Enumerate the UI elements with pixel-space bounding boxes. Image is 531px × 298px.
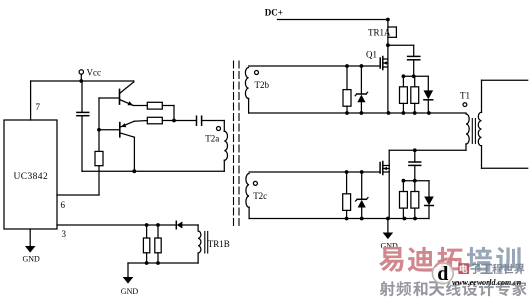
wire to coupling cap	[174, 120, 196, 122]
resistor R9 (Q2 gate)	[346, 172, 348, 194]
resistor R10 (burden)	[146, 225, 148, 238]
svg-text:TR1A: TR1A	[368, 28, 391, 38]
svg-text:T2a: T2a	[205, 134, 219, 144]
winding TR1A current transformer primary	[387, 20, 389, 46]
wire pin7 vertical	[30, 81, 32, 120]
svg-text:TR1B: TR1B	[208, 239, 230, 249]
resistor R8 (snubber 2)	[414, 181, 416, 192]
svg-text:www.eeworld.com.cn: www.eeworld.com.cn	[452, 278, 522, 287]
capacitor C3 (snubber 1)	[413, 45, 415, 56]
ground GND1 under UC3842	[29, 229, 31, 246]
svg-text:6: 6	[61, 200, 66, 210]
watermark brand line: yi di tuo (rose) + pei xun (blue)	[379, 247, 404, 272]
winding TR1B current transformer secondary	[197, 225, 199, 231]
winding T2a primary	[223, 121, 225, 132]
wire junction row 2	[403, 180, 429, 182]
winding T1 secondary	[481, 80, 483, 112]
node collector junction	[132, 169, 136, 173]
wire top rail Vcc	[31, 80, 134, 82]
svg-text:GND: GND	[121, 287, 139, 296]
node emitter junction	[172, 119, 176, 123]
svg-text:Vcc: Vcc	[87, 68, 102, 78]
svg-text:DC+: DC+	[265, 8, 283, 18]
winding T2c secondary	[246, 174, 249, 208]
wire DC+ rail	[278, 19, 388, 21]
node Vcc terminal	[79, 70, 83, 74]
wire source rail 2	[249, 218, 429, 220]
transistor Q2 MOSFET	[383, 165, 389, 167]
svg-text:d: d	[437, 263, 448, 285]
transistor Q_pnp (bottom)	[97, 128, 101, 132]
resistor R1 (top emitter)	[147, 102, 162, 109]
svg-text:T2b: T2b	[255, 80, 270, 90]
svg-text:7: 7	[36, 102, 41, 112]
svg-text:Q1: Q1	[366, 50, 377, 60]
zener Z2 (Q2 gate clamp)	[361, 172, 363, 199]
capacitor C2 (coupling)	[196, 116, 198, 125]
wire burden bottom rail	[128, 262, 198, 264]
svg-text:T2c: T2c	[253, 191, 267, 201]
wire drain link to snubber cap	[388, 44, 414, 46]
watermark eeworld logo: red dian box	[458, 263, 469, 274]
core dashed lines T2	[233, 61, 235, 226]
watermark eeworld gray text	[470, 264, 481, 274]
diode D3 (rectifier, cathode left)	[175, 221, 177, 228]
resistor R11 (burden)	[157, 225, 159, 238]
ground GND2 (sense)	[127, 263, 129, 277]
svg-text:UC3842: UC3842	[14, 172, 49, 182]
capacitor C1 (Vcc bypass)	[81, 81, 83, 112]
op-amp U1 UC3842 controller box	[4, 120, 57, 229]
node burden junctions	[145, 223, 149, 227]
wire drain line 2	[389, 149, 466, 151]
winding T1 primary	[466, 114, 469, 144]
resistor R2 (bottom emitter)	[147, 117, 162, 124]
wire source rail 1	[249, 112, 466, 114]
svg-text:GND: GND	[23, 255, 41, 264]
wire base bus vertical	[98, 98, 100, 151]
resistor R5 (snubber 1)	[402, 76, 404, 87]
transistor Q_npn (top)	[99, 97, 120, 99]
svg-text:T1: T1	[460, 91, 470, 101]
zener Z1 (Q1 gate clamp)	[360, 66, 362, 94]
winding T2b secondary	[245, 68, 248, 99]
capacitor C4 (snubber 2)	[414, 150, 416, 162]
wire junction row 1	[403, 75, 428, 77]
logo d circle	[432, 262, 454, 284]
wire pin 3	[57, 224, 176, 226]
resistor R3 (base drive)	[95, 151, 103, 165]
wire Q2 gate line	[249, 171, 380, 173]
diode D2 (snubber 2)	[428, 181, 430, 197]
wire return line (cap bottom / T2a return)	[82, 170, 224, 172]
watermark slogan line: she pin he tian xian she ji zhuan jia (gray)	[380, 281, 395, 296]
svg-text:3: 3	[62, 229, 67, 239]
ground GND3 (power stage)	[387, 219, 389, 233]
resistor R4 (Q1 gate)	[346, 66, 348, 90]
diode D1 (snubber 1)	[427, 76, 429, 90]
resistor R7 (snubber 2)	[402, 181, 404, 192]
resistor R6 (snubber 1)	[414, 76, 416, 87]
wire pin 6	[57, 194, 99, 196]
core T1	[471, 119, 473, 144]
wire Q1 gate line	[249, 65, 381, 67]
core TR1B	[204, 232, 206, 254]
